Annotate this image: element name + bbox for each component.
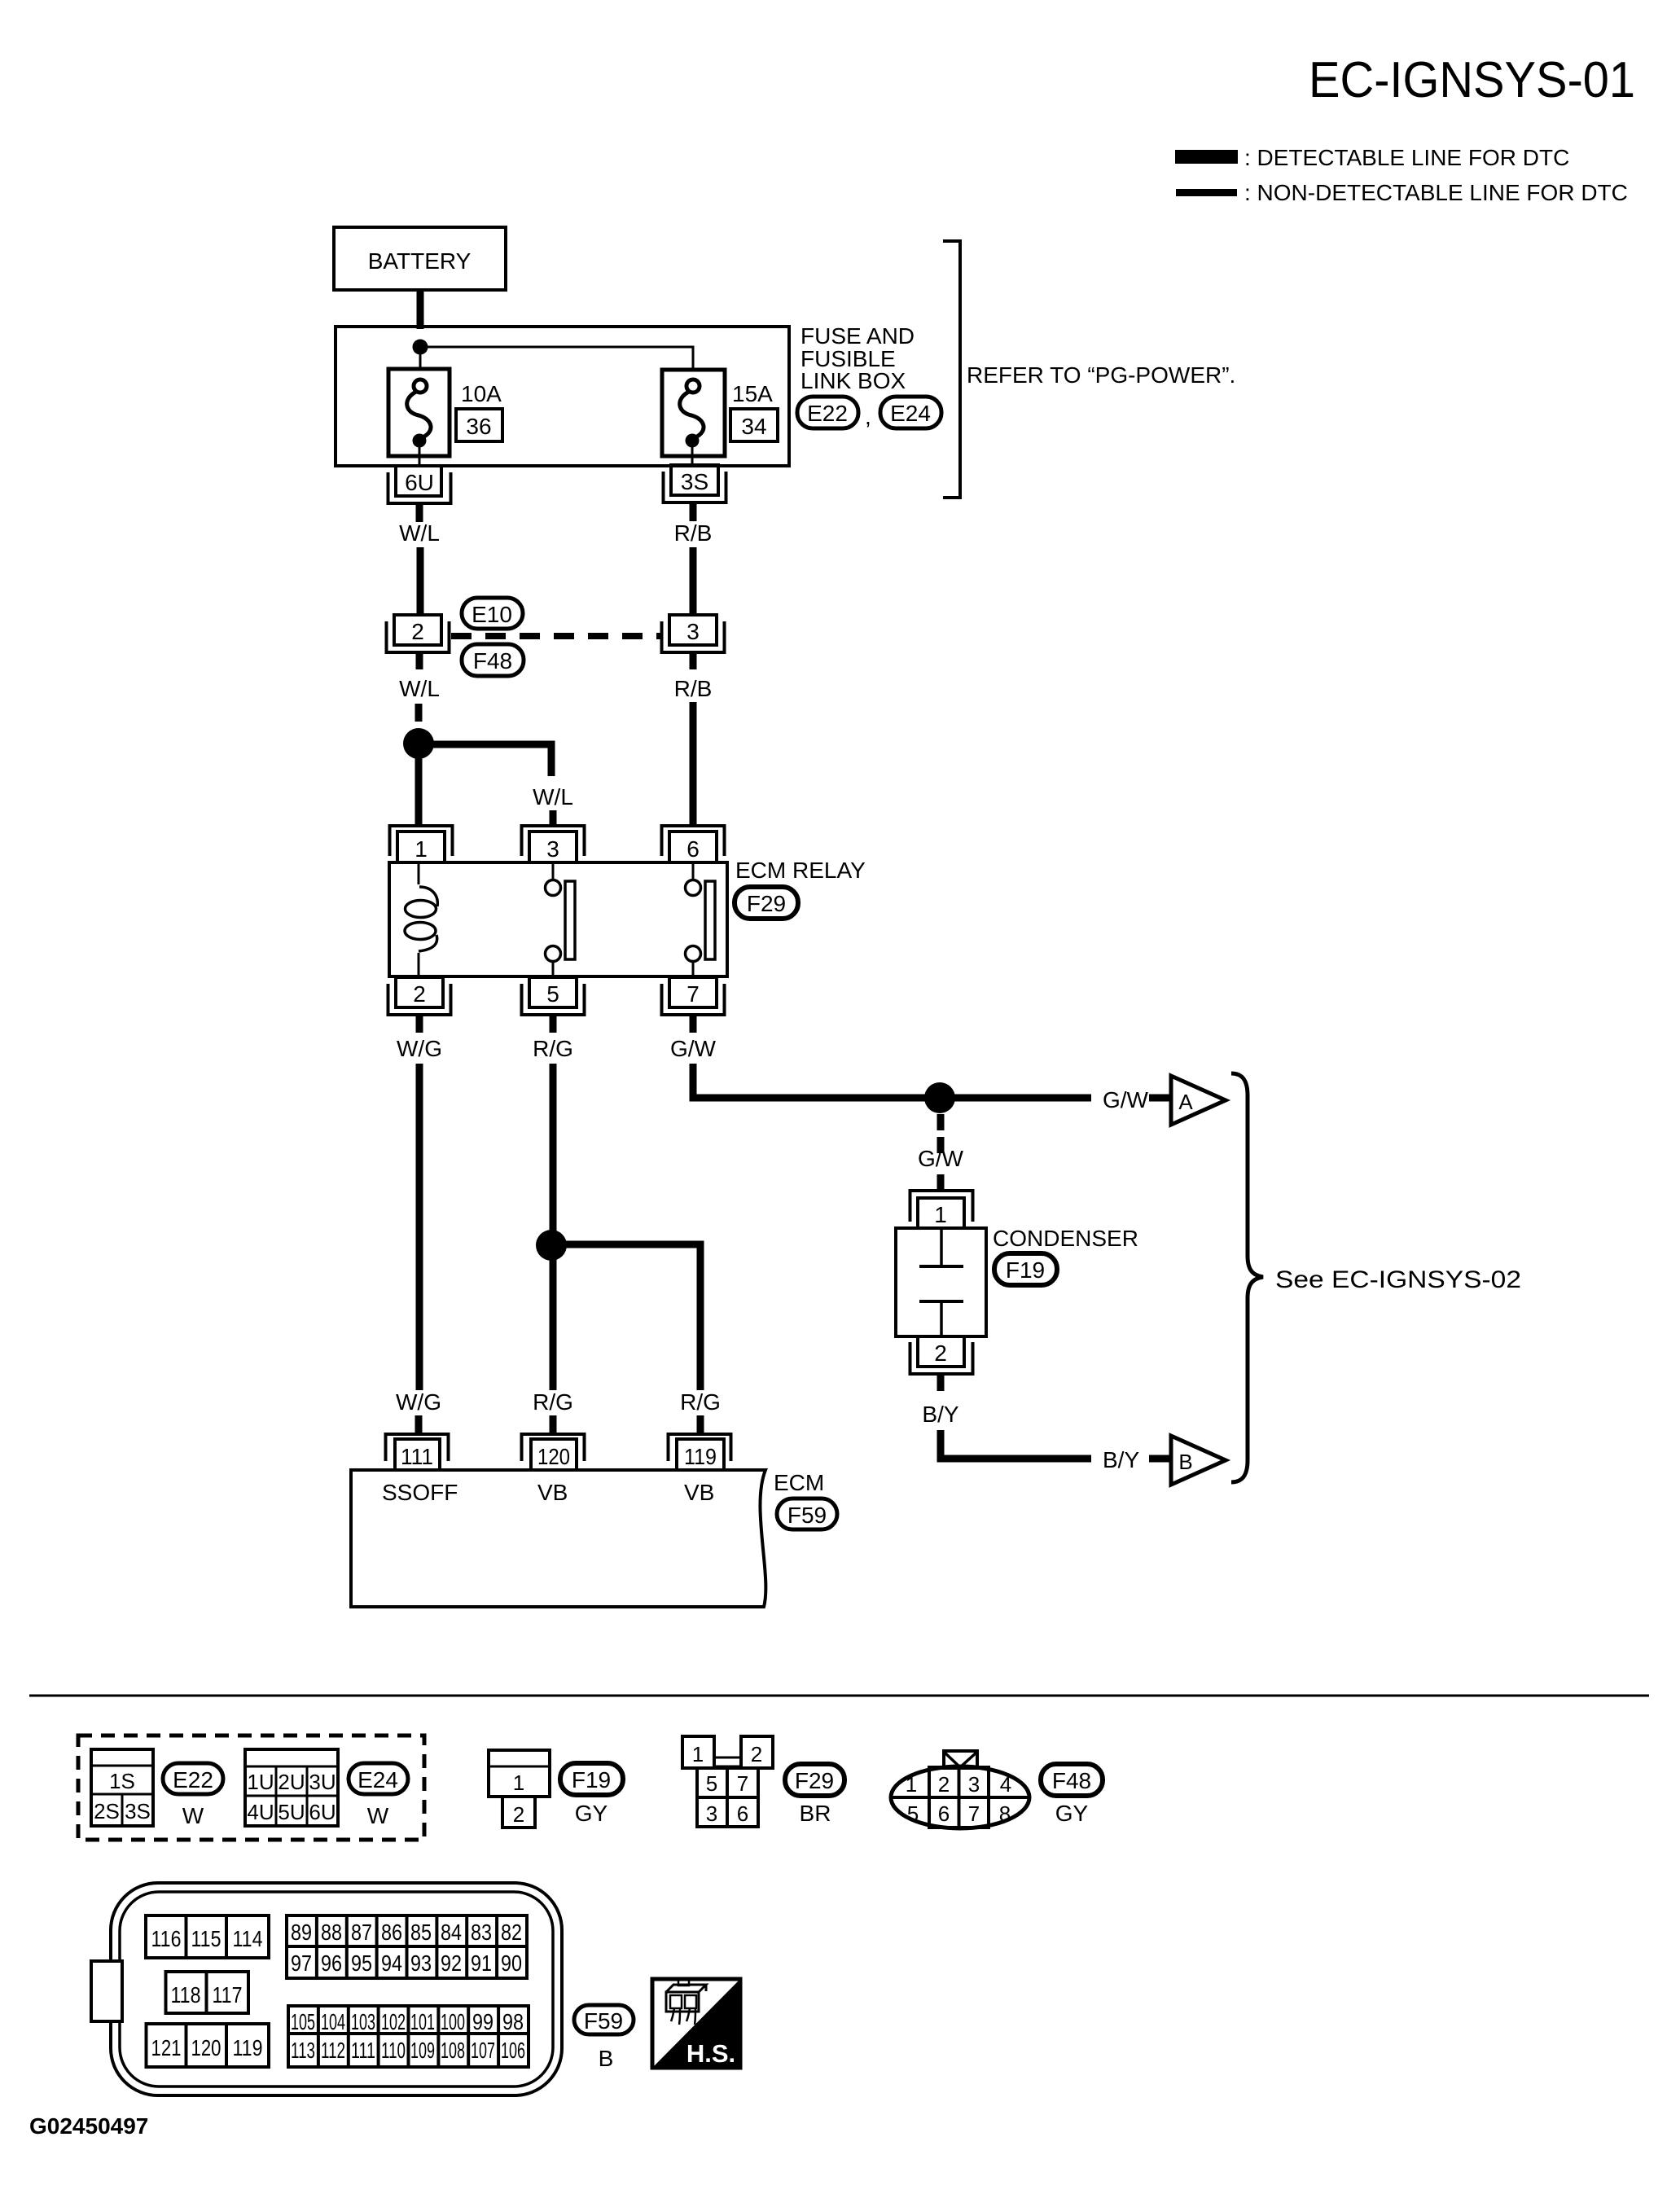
ECM box <box>351 1470 765 1607</box>
svg-text:95: 95 <box>351 1950 372 1976</box>
svg-text:F48: F48 <box>473 648 512 674</box>
svg-text:90: 90 <box>501 1950 522 1976</box>
svg-text:F19: F19 <box>572 1767 611 1792</box>
svg-text:BR: BR <box>800 1801 831 1826</box>
svg-text:F59: F59 <box>584 2008 623 2034</box>
svg-text:F48: F48 <box>1052 1768 1091 1793</box>
svg-text:3U: 3U <box>309 1770 336 1794</box>
svg-text:107: 107 <box>471 2038 495 2063</box>
wire stub above ECM pin 120 <box>550 1415 557 1433</box>
wire stub below condenser pin 2 <box>937 1374 945 1391</box>
wire stub to arrow A <box>1149 1095 1171 1102</box>
connector pin 2 (condenser) <box>910 1336 973 1374</box>
off-page arrow B <box>1171 1436 1226 1485</box>
svg-text:B: B <box>599 2046 614 2071</box>
wire stub below relay pin 2 <box>416 1015 423 1033</box>
connector pin 1 (relay) <box>390 826 453 862</box>
svg-text:3: 3 <box>686 619 700 644</box>
svg-text:R/B: R/B <box>674 676 713 701</box>
svg-text:96: 96 <box>321 1950 342 1976</box>
svg-text:121: 121 <box>151 2035 182 2060</box>
connector pin 111 (ECM) <box>386 1434 449 1470</box>
connector face F29 <box>682 1736 773 1827</box>
svg-text:2: 2 <box>934 1341 947 1366</box>
svg-text:1: 1 <box>934 1202 947 1227</box>
svg-text:ECM: ECM <box>774 1470 824 1495</box>
wire G/W relay pin7 down and right <box>693 1064 1091 1098</box>
F59 cell grid 105-98 / 113-106 <box>288 2006 529 2067</box>
connector pin 119 (ECM) <box>669 1434 731 1470</box>
svg-text:,: , <box>865 404 871 429</box>
connector pin 3 (relay) <box>522 826 585 862</box>
wire W/G relay to ECM <box>416 1064 423 1390</box>
svg-text:4: 4 <box>1000 1772 1011 1797</box>
svg-text:108: 108 <box>441 2038 465 2063</box>
svg-text:CONDENSER: CONDENSER <box>993 1226 1138 1251</box>
svg-text:ECM RELAY: ECM RELAY <box>735 858 866 883</box>
svg-text:3: 3 <box>968 1772 980 1797</box>
svg-text:B: B <box>1178 1450 1192 1474</box>
svg-text:H.S.: H.S. <box>686 2039 735 2068</box>
connector ref F19 oval <box>994 1253 1057 1285</box>
svg-text:1S: 1S <box>109 1769 135 1793</box>
svg-text:F29: F29 <box>747 891 786 916</box>
node W/L junction <box>403 728 434 759</box>
svg-text:115: 115 <box>191 1926 222 1951</box>
svg-text:1: 1 <box>415 836 428 862</box>
node battery feed junction <box>413 340 428 355</box>
svg-text:87: 87 <box>351 1920 372 1945</box>
svg-text:FUSE AND: FUSE AND <box>801 323 915 349</box>
wire dash above junction <box>415 704 423 722</box>
svg-text:See EC-IGNSYS-02: See EC-IGNSYS-02 <box>1275 1266 1521 1293</box>
svg-text:119: 119 <box>233 2035 263 2060</box>
svg-text:LINK BOX: LINK BOX <box>801 368 906 393</box>
svg-text:117: 117 <box>213 1982 243 2008</box>
wire dashed junction to condenser <box>937 1114 945 1153</box>
svg-text:1: 1 <box>513 1771 524 1795</box>
svg-text:EC-IGNSYS-01: EC-IGNSYS-01 <box>1309 52 1635 108</box>
connector ref E24 oval <box>880 397 941 428</box>
svg-text:119: 119 <box>684 1444 717 1469</box>
svg-text:3S: 3S <box>681 469 708 494</box>
F59 cell grid 89-82 / 97-90 <box>287 1915 527 1978</box>
svg-text:2: 2 <box>411 619 424 644</box>
svg-text:111: 111 <box>401 1444 433 1469</box>
svg-text:R/G: R/G <box>533 1389 573 1415</box>
connector pin 2 (E10/F48) <box>387 615 450 652</box>
connector face F19 <box>489 1750 550 1828</box>
svg-text:6: 6 <box>938 1801 950 1826</box>
connector ref E22 oval (detail) <box>163 1763 223 1794</box>
svg-text:7: 7 <box>737 1771 748 1796</box>
svg-text:W: W <box>367 1803 389 1828</box>
wire stub below 3S <box>690 502 697 521</box>
svg-text:: DETECTABLE LINE FOR DTC: : DETECTABLE LINE FOR DTC <box>1244 145 1569 170</box>
svg-text:G02450497: G02450497 <box>29 2113 148 2139</box>
svg-text:1: 1 <box>906 1772 917 1797</box>
svg-text:2: 2 <box>413 981 426 1007</box>
capacitor symbol <box>919 1228 963 1336</box>
wire stub above ECM pin 119 <box>697 1415 704 1433</box>
svg-text:88: 88 <box>321 1920 342 1945</box>
svg-text:94: 94 <box>381 1950 402 1976</box>
wire branch R/G junction to pin 119 <box>564 1244 700 1390</box>
wire junction down to relay pin 1 <box>415 757 423 826</box>
svg-text:91: 91 <box>471 1950 492 1976</box>
dashed group box E22/E24 <box>78 1735 424 1840</box>
svg-text:G/W: G/W <box>1103 1087 1149 1112</box>
svg-text:5: 5 <box>706 1771 717 1796</box>
connector face E22 <box>91 1749 153 1826</box>
H.S. logo <box>652 1979 740 2068</box>
svg-text:118: 118 <box>171 1982 201 2008</box>
condenser C1 body <box>896 1228 986 1336</box>
wire B/Y down and right to arrow B <box>941 1430 1091 1459</box>
svg-text:114: 114 <box>233 1926 263 1951</box>
svg-text:106: 106 <box>501 2038 525 2063</box>
connector face F59 (ECM) <box>91 1883 562 2095</box>
fuse number 34 <box>730 409 778 441</box>
wire stub below connector 3 <box>690 652 697 669</box>
svg-text:6: 6 <box>737 1801 748 1826</box>
label FUSE AND FUSIBLE LINK BOX <box>801 323 915 393</box>
connector ref F59 oval (detail) <box>574 2005 634 2034</box>
svg-text:97: 97 <box>291 1950 312 1976</box>
svg-text:REFER TO “PG-POWER”.: REFER TO “PG-POWER”. <box>967 362 1235 388</box>
svg-text:120: 120 <box>537 1444 570 1469</box>
svg-text:1: 1 <box>692 1742 704 1766</box>
relay contact (pin 6-7) <box>686 862 716 976</box>
svg-text:VB: VB <box>684 1480 714 1505</box>
separator line <box>29 1695 1649 1697</box>
svg-text:112: 112 <box>321 2038 345 2063</box>
connector ref E10 oval <box>462 598 523 629</box>
svg-text:103: 103 <box>351 2009 375 2034</box>
connector face E24 <box>245 1749 338 1826</box>
connector pin 3 (E10/F48) <box>662 615 725 652</box>
svg-text:93: 93 <box>410 1950 432 1976</box>
connector ref F48 oval <box>462 644 524 676</box>
connector ref E24 oval (detail) <box>349 1763 408 1794</box>
svg-text:86: 86 <box>381 1920 402 1945</box>
wire junction to 10A fuse <box>419 347 422 371</box>
svg-text:E10: E10 <box>472 602 512 627</box>
svg-text:3S: 3S <box>125 1799 151 1823</box>
svg-text:98: 98 <box>502 2009 524 2034</box>
svg-text:BATTERY: BATTERY <box>368 248 472 274</box>
svg-text:G/W: G/W <box>670 1036 717 1061</box>
svg-text:5: 5 <box>546 981 559 1007</box>
svg-text:100: 100 <box>441 2009 465 2034</box>
svg-text:99: 99 <box>472 2009 493 2034</box>
F59 cells 118 117 <box>166 1972 249 2013</box>
svg-text:W/L: W/L <box>399 676 440 701</box>
svg-text:113: 113 <box>291 2038 315 2063</box>
node R/G junction <box>536 1230 567 1261</box>
svg-text:W/G: W/G <box>397 1036 442 1061</box>
fuse 10A (36) <box>388 369 450 466</box>
connector pin 5 (relay) <box>522 977 585 1015</box>
svg-text:89: 89 <box>291 1920 312 1945</box>
svg-text:109: 109 <box>410 2038 435 2063</box>
svg-text:1U: 1U <box>247 1770 274 1794</box>
svg-text:34: 34 <box>741 414 766 439</box>
wire R/G relay to ECM <box>550 1064 557 1390</box>
wire stub below 6U <box>416 504 423 522</box>
svg-text:W/G: W/G <box>396 1389 441 1415</box>
connector ref F29 oval <box>735 887 798 919</box>
svg-text:3: 3 <box>706 1801 717 1826</box>
svg-text:E22: E22 <box>173 1767 213 1792</box>
svg-text:36: 36 <box>466 414 491 439</box>
svg-text:120: 120 <box>191 2035 222 2060</box>
svg-text:F29: F29 <box>795 1768 834 1793</box>
svg-text:101: 101 <box>410 2009 435 2034</box>
svg-text:B/Y: B/Y <box>922 1402 958 1427</box>
connector pin 7 (relay) <box>662 977 725 1015</box>
battery <box>334 227 506 290</box>
node G/W junction <box>924 1082 955 1113</box>
connector face F48 <box>891 1751 1029 1828</box>
svg-text:R/G: R/G <box>533 1036 573 1061</box>
svg-text:15A: 15A <box>732 381 773 406</box>
connector ref F48 oval (detail) <box>1041 1764 1103 1796</box>
svg-text:82: 82 <box>501 1920 522 1945</box>
svg-text:6U: 6U <box>405 470 434 495</box>
svg-text:F19: F19 <box>1006 1257 1045 1283</box>
fuse number 36 <box>456 409 502 441</box>
wire R/B down to relay pin 6 <box>690 702 697 826</box>
svg-text:4U: 4U <box>247 1800 274 1824</box>
connector ref F29 oval (detail) <box>785 1764 844 1796</box>
dashed connector link line <box>451 633 662 639</box>
svg-text:GY: GY <box>1055 1801 1089 1826</box>
F59 cells 116 115 114 <box>146 1915 269 1958</box>
fuse and fusible link box <box>336 327 789 466</box>
wire branch junction to relay pin 3 <box>432 744 551 776</box>
connector pin 1 (condenser) <box>910 1191 973 1228</box>
connector ref F19 oval (detail) <box>560 1763 623 1795</box>
svg-text:2: 2 <box>513 1802 524 1827</box>
svg-text:2S: 2S <box>94 1799 120 1823</box>
wire stub below connector 2 <box>416 652 423 669</box>
relay coil <box>405 862 437 976</box>
svg-text:2U: 2U <box>278 1770 305 1794</box>
svg-text:VB: VB <box>537 1480 568 1505</box>
svg-text:84: 84 <box>441 1920 462 1945</box>
wire stub to arrow B <box>1149 1455 1171 1463</box>
svg-text:5: 5 <box>907 1801 919 1826</box>
svg-text:E24: E24 <box>890 401 931 426</box>
svg-text:110: 110 <box>381 2038 406 2063</box>
svg-text:116: 116 <box>151 1926 182 1951</box>
svg-text:SSOFF: SSOFF <box>382 1480 458 1505</box>
svg-text:E24: E24 <box>357 1767 398 1792</box>
wire R/B down to connector 3 <box>690 547 697 616</box>
svg-text:A: A <box>1178 1090 1193 1114</box>
wire junction to 15A fuse <box>420 347 693 371</box>
wire stub above condenser pin 1 <box>937 1174 945 1192</box>
svg-text:GY: GY <box>575 1801 608 1826</box>
wire battery to fuse box (detectable) <box>417 290 424 329</box>
svg-text:6: 6 <box>686 836 700 862</box>
svg-text:R/B: R/B <box>674 520 713 546</box>
svg-text:8: 8 <box>999 1801 1011 1826</box>
wire stub below relay pin 7 <box>690 1015 697 1033</box>
svg-text:92: 92 <box>441 1950 462 1976</box>
connector pin 120 (ECM) <box>522 1434 585 1470</box>
wire stub above relay pin 3 <box>550 810 557 826</box>
relay U1 ECM RELAY box <box>389 862 727 976</box>
legend detectable line swatch <box>1175 150 1238 164</box>
svg-text:: NON-DETECTABLE LINE FOR DTC: : NON-DETECTABLE LINE FOR DTC <box>1244 180 1628 205</box>
svg-text:111: 111 <box>351 2038 375 2063</box>
svg-text:W/L: W/L <box>533 784 573 810</box>
svg-text:R/G: R/G <box>680 1389 721 1415</box>
F59 cells 121 120 119 <box>147 2024 270 2067</box>
connector pin 3S (fuse box) <box>664 465 726 502</box>
svg-text:10A: 10A <box>461 381 502 406</box>
svg-text:W: W <box>182 1803 204 1828</box>
connector pin 6 (relay) <box>662 826 725 862</box>
svg-text:83: 83 <box>471 1920 492 1945</box>
svg-text:7: 7 <box>686 981 700 1007</box>
bracket refer to PG-POWER <box>943 241 960 498</box>
svg-text:102: 102 <box>381 2009 406 2034</box>
svg-text:6U: 6U <box>309 1800 336 1824</box>
svg-text:5U: 5U <box>278 1800 305 1824</box>
svg-text:104: 104 <box>321 2009 345 2034</box>
svg-text:3: 3 <box>546 836 559 862</box>
off-page arrow A <box>1171 1076 1226 1125</box>
connector pin 2 (relay) <box>388 977 451 1015</box>
fuse 15A (34) <box>662 370 725 465</box>
legend non-detectable line swatch <box>1176 189 1237 196</box>
svg-text:E22: E22 <box>807 401 848 426</box>
svg-text:B/Y: B/Y <box>1103 1447 1139 1472</box>
svg-text:G/W: G/W <box>918 1146 964 1171</box>
wire W/L down to connector 2 <box>417 547 424 616</box>
svg-text:7: 7 <box>968 1801 980 1826</box>
svg-text:85: 85 <box>410 1920 432 1945</box>
relay contact (pin 3-5) <box>546 862 576 976</box>
svg-text:105: 105 <box>291 2009 315 2034</box>
svg-text:F59: F59 <box>787 1503 827 1528</box>
svg-text:2: 2 <box>751 1742 762 1766</box>
svg-text:W/L: W/L <box>399 520 440 546</box>
svg-text:2: 2 <box>938 1772 950 1797</box>
connector ref E22 oval <box>797 397 858 428</box>
brace see EC-IGNSYS-02 <box>1231 1073 1263 1482</box>
connector pin 6U (fuse box) <box>388 466 451 503</box>
wire stub above ECM pin 111 <box>415 1415 423 1433</box>
connector ref F59 oval <box>777 1499 837 1529</box>
wire stub below relay pin 5 <box>550 1015 557 1033</box>
